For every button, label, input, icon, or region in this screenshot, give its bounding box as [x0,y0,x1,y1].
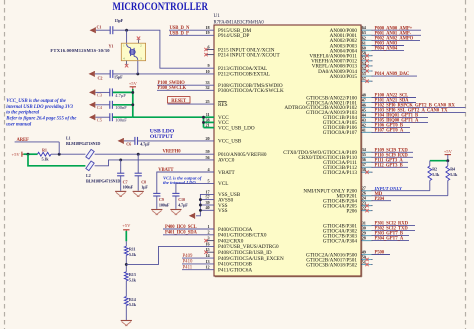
wire SDA [163,234,214,236]
svg-text:6: 6 [208,44,210,49]
svg-text:20: 20 [206,136,210,141]
no-connect crystal pin2 [138,39,140,43]
svg-text:28: 28 [362,236,366,241]
capacitor C10 [172,193,179,196]
svg-text:15pF: 15pF [114,75,123,80]
svg-text:5: 5 [208,178,210,183]
svg-text:19: 19 [206,30,210,35]
svg-text:VREFH0: VREFH0 [163,150,182,155]
svg-text:2: 2 [208,230,210,235]
crystal Y1 [121,43,145,61]
svg-text:12: 12 [206,265,210,270]
svg-text:5.1k: 5.1k [129,302,137,307]
wire L2 to AVCC0 pin 56 [95,160,214,166]
wire R1 to L1 [51,153,85,155]
svg-text:P304_GPT7_A: P304_GPT7_A [375,237,404,242]
svg-text:VCL: VCL [218,181,228,187]
pin 6 P215 INPUT ONLY/XCIN (left) [207,49,215,51]
svg-text:+5V: +5V [12,152,21,157]
svg-text:L2: L2 [86,173,91,178]
pin 63 AN001/P001 (right) [361,34,373,36]
svg-text:P004_AN04: P004_AN04 [375,47,398,52]
svg-text:GTIOC7A/P304: GTIOC7A/P304 [323,238,358,244]
svg-text:VCC_USB_LDO: VCC_USB_LDO [218,125,255,131]
svg-text:51: 51 [362,259,366,264]
pin 57 (right) [361,80,373,82]
svg-text:P914/USB_DP: P914/USB_DP [218,33,250,39]
wire C6 to pin 20 [138,140,214,142]
pin 27 NMI/INPUT ONLY P200 (right) [361,190,373,192]
pin 61 AN003/P003 (right) [361,45,373,47]
svg-text:13: 13 [206,259,210,264]
wire green pullup rail [430,160,448,162]
svg-text:RES: RES [218,102,228,108]
pin 41 GTIOC0A/P107 (right) [361,131,373,133]
wire R2 to NMI row [429,181,431,191]
wire C1 to XTAL pin9 [113,30,214,68]
wire gnd to C2 [95,73,110,75]
svg-text:40: 40 [206,205,210,210]
ground (divider) [121,321,132,326]
svg-text:R14: R14 [129,297,137,302]
svg-text:9: 9 [208,63,210,68]
svg-text:1µF: 1µF [141,185,148,190]
microcontroller U1 body [214,25,361,276]
pin 52 DA0/AN009/P014 (right) [361,70,373,72]
power +5V (VCC rail) [130,86,136,88]
wire USB_D_P [169,34,214,36]
pin 54 VREFL/AN008/P013 (right) [361,65,373,67]
svg-text:+5V: +5V [444,149,453,154]
capacitor C3 [89,90,95,96]
svg-text:BLM18PG471SN1D: BLM18PG471SN1D [66,141,100,146]
svg-text:15pF: 15pF [115,18,124,23]
junction +5V [27,153,30,156]
wire R13 to R14 [125,281,127,297]
svg-text:5.1k: 5.1k [129,277,137,282]
pin 3 P402/CRX0 (left) [207,240,215,242]
wire SWDIO [157,84,214,86]
wire VBATT [157,172,214,193]
pin 53 VREFH/AN007/P012 (right) [361,60,373,62]
resistor R11 [125,241,127,246]
capacitor C2 [110,70,113,78]
svg-text:4.7µF: 4.7µF [140,142,150,147]
capacitor C6 [124,140,135,142]
svg-text:5.1k: 5.1k [42,156,50,161]
svg-text:5.1k: 5.1k [129,252,137,257]
ground (C2 left) [89,71,95,77]
pin 23 GTIOC4A/P205 (right) [361,205,373,207]
svg-text:P214 INPUT ONLY/XCOUT: P214 INPUT ONLY/XCOUT [218,52,280,58]
svg-text:user manual: user manual [6,122,32,127]
svg-text:100nF: 100nF [159,203,170,208]
svg-text:to the peripheral: to the peripheral [6,111,39,116]
resistor R14 [124,297,128,306]
wire C2 to EXTAL pin10 [113,73,214,75]
pin 48 GTIOC5B/AN022/P100 (right) [361,97,373,99]
wire divider to P407 pin16 [126,246,214,264]
svg-text:P204: P204 [375,197,385,202]
junction AREF [58,153,61,156]
svg-text:10: 10 [206,69,210,74]
wire SWCLK [157,89,214,91]
wire gnd to C1 [96,29,110,31]
no-connect crystal pin4 [126,61,128,65]
wire green vcc vertical at IC [203,117,205,127]
pin 15 P408/GTIOC5B/USB_ID (left) [207,251,215,253]
inductor L2 [86,161,94,171]
resistor R4 [447,161,449,166]
svg-text:P112_GPT3_B: P112_GPT3_B [375,163,403,168]
svg-text:C5: C5 [97,118,103,123]
pin 62 AN002/P002 (right) [361,39,373,41]
junction C8 [137,153,140,156]
svg-text:P500: P500 [375,251,385,256]
svg-text:GTIOC3B/AN018/P502: GTIOC3B/AN018/P502 [306,262,357,268]
pin 64 AN000/P000 (right) [361,29,373,31]
wire R4 to MD row [447,181,449,196]
svg-text:VSS: VSS [218,208,228,214]
pin 43 GTIOC1A/P105 (right) [361,121,373,123]
svg-text:5.1k: 5.1k [450,172,458,177]
wire green to pin 11 [204,116,215,118]
svg-text:25: 25 [206,99,210,104]
svg-text:P107_GPT0_A: P107_GPT0_A [375,129,404,134]
capacitor C9 [153,193,160,196]
svg-text:100nF: 100nF [115,105,127,110]
svg-text:BLM18PG471SN1D: BLM18PG471SN1D [86,179,120,184]
wire green to pin 21 [204,127,215,129]
svg-text:C4: C4 [97,105,103,110]
svg-text:16: 16 [206,241,210,246]
junction crystal bottom [136,72,139,75]
svg-text:VCC_USB: VCC_USB [218,139,242,145]
wire R14 to ground [125,306,127,321]
pin 22 P206 (right) [361,210,373,212]
svg-text:the internal LDO: the internal LDO [163,180,196,185]
svg-text:100nF: 100nF [115,118,127,123]
wire RESET [168,103,215,105]
svg-text:R1: R1 [42,147,47,152]
pin 35 CRX0/TDI/GTIOC1B/P110 (right) [361,156,373,158]
svg-text:100nF: 100nF [123,185,134,190]
wire green to pin 38 [204,121,215,123]
svg-text:59: 59 [206,149,210,154]
svg-text:57: 57 [206,195,210,200]
svg-text:FTX16.000M12SM3S-30/30: FTX16.000M12SM3S-30/30 [50,48,110,53]
svg-text:P212/GTIOC0B/EXTAL: P212/GTIOC0B/EXTAL [218,72,270,78]
power +5V (right) [445,154,451,156]
pin 58 VREFL0/AN006/P011 (right) [361,55,373,57]
pin 45 GTIOC2A/AN019/P103 (right) [361,111,373,113]
svg-text:22: 22 [362,206,366,211]
svg-text:GTIOC0A/P107: GTIOC0A/P107 [323,130,358,136]
pin 28 GTIOC7A/P304 (right) [361,240,373,242]
svg-text:39: 39 [206,200,210,205]
wire crystal pin3 [137,61,139,74]
pin 24 GTIOC4B/P204 (right) [361,200,373,202]
svg-text:RESET: RESET [171,99,187,104]
wire AREF vertical [58,142,60,154]
svg-text:C1: C1 [97,25,102,30]
svg-text:MICROCONTROLLER: MICROCONTROLLER [113,1,209,13]
pin 37 GTIOC3B/P112 (right) [361,166,373,168]
svg-text:3: 3 [208,236,210,241]
svg-text:C6: C6 [126,142,131,147]
wire green VCC bus vertical [132,89,134,117]
power +5V (divider) [123,229,129,231]
port RESET [168,97,191,103]
wire VCL [176,183,214,193]
svg-text:R7FA4M1AB3CFM#HA0: R7FA4M1AB3CFM#HA0 [214,21,265,26]
svg-text:R2: R2 [432,167,437,172]
resistor R2 [429,161,431,166]
pin 30 GTIOC4A/P302 (right) [361,230,373,232]
svg-text:P014_AN09_DAC: P014_AN09_DAC [375,72,410,77]
svg-text:C9: C9 [159,197,164,202]
pin 34 CTX0/TDO/SWO/GTIOC1A/P109 (right) [361,151,373,153]
svg-text:P206: P206 [346,208,357,214]
svg-text:15: 15 [206,247,210,252]
pin 50 GTIOC2B/AN017/P501 (right) [361,259,373,261]
pin nc P214 INPUT ONLY/XCOUT (left) [207,54,215,56]
capacitor C8 [137,154,139,173]
svg-text:32: 32 [206,85,210,90]
capacitor C4 [89,102,95,108]
svg-text:4.7µF: 4.7µF [178,203,188,208]
svg-text:L1: L1 [66,135,71,140]
ground (C1 left) [90,27,96,33]
svg-text:AN010/P015: AN010/P015 [330,74,358,80]
wire green VCC bus horizontal [133,116,204,118]
pin 47 GTIOC5A/AN021/P101 (right) [361,102,373,104]
pin 38 GTIOC2A/P113 (right) [361,171,373,173]
svg-text:57: 57 [362,76,366,81]
wire crystal pin1 [126,30,128,43]
svg-text:internal USB LDO providing 3V3: internal USB LDO providing 3V3 [6,105,73,110]
svg-text:U1: U1 [214,13,221,19]
pin 29 GTIOC7B/P303 (right) [361,235,373,237]
pin 51 GTIOC3B/AN018/P502 (right) [361,264,373,266]
junction pullup [446,159,449,162]
wire green +5V divider [125,231,127,241]
svg-text:Refer to figure 26.4 page 555: Refer to figure 26.4 page 555 of the [6,117,77,122]
svg-text:41: 41 [362,127,366,132]
svg-text:GTIOC2A/P113: GTIOC2A/P113 [323,170,358,176]
svg-text:1: 1 [208,224,210,229]
pin 36 GTIOC3A/P111 (right) [361,161,373,163]
svg-text:38: 38 [362,167,366,172]
wire SCL [163,228,214,230]
svg-text:C2: C2 [98,75,103,80]
wire VSS chain [196,194,214,215]
resistor R1 [38,152,52,156]
svg-text:+5V: +5V [122,223,131,228]
pin 31 GTIOC4B/P301 (right) [361,225,373,227]
inductor L1 [86,149,94,159]
capacitor C1 [110,26,113,34]
svg-text:R11: R11 [129,247,136,252]
svg-text:+5V: +5V [129,81,138,86]
junction dots vcc [202,116,205,119]
wire green +5V down to L2 [28,154,85,166]
pin 26 MD/P201 (right) [361,195,373,197]
pin 60 AN004/P004 (right) [361,50,373,52]
junction C7 [119,158,122,161]
capacitor C7 [120,160,122,173]
wire green +5V to R1 [24,153,38,155]
svg-text:INPUT ONLY: INPUT ONLY [374,186,403,191]
wire USB_D_N [169,29,214,31]
pin 42 GTIOC0B/P106 (right) [361,126,373,128]
svg-text:56: 56 [206,155,210,160]
svg-text:C3: C3 [97,93,103,98]
svg-text:C10: C10 [178,197,185,202]
svg-text:R13: R13 [129,272,136,277]
pin 46 ADTRG0/GTIOC2B/AN020/P102 (right) [361,106,373,108]
junction divider [125,263,128,266]
pin 49 GTIOC2A/AN016/P500 (right) [361,254,373,256]
svg-text:P300/GTIOC0A/TCK/SWCLK: P300/GTIOC0A/TCK/SWCLK [218,88,284,94]
pin 44 GTIOC1B/P104 (right) [361,116,373,118]
svg-text:VCC_USB is the output of the: VCC_USB is the output of the [6,99,66,104]
svg-text:OUTPUT: OUTPUT [150,134,174,140]
wire AREF [15,141,60,143]
svg-text:4.7µF: 4.7µF [115,93,126,98]
wire L1 to VREFH0 pin 59 [95,153,214,155]
resistor R13 [124,272,128,281]
ground (VSS) [189,213,195,219]
svg-text:P411/GTIOC6A: P411/GTIOC6A [218,267,252,273]
ground (C6) [118,138,124,144]
wire R11 to junction [125,255,127,271]
pin 55 AN010/P015 (right) [361,75,373,77]
capacitor C5 [89,114,95,120]
svg-text:5.1k: 5.1k [432,172,440,177]
svg-text:VBATT: VBATT [218,170,236,176]
junction crystal top [125,29,128,32]
svg-text:AVCC0: AVCC0 [218,158,235,164]
